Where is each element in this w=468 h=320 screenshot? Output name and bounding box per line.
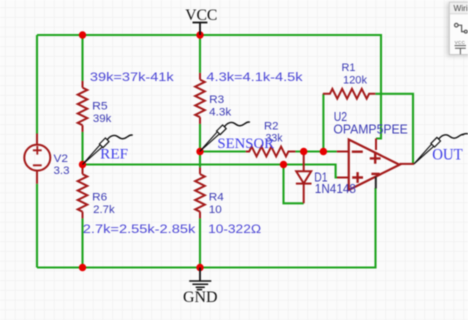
svg-text:10-322Ω: 10-322Ω [208, 222, 261, 236]
svg-text:R5: R5 [92, 101, 108, 113]
svg-text:120k: 120k [343, 75, 368, 87]
svg-text:2.7k: 2.7k [93, 204, 115, 216]
svg-text:33k: 33k [266, 133, 284, 145]
svg-text:1N4148: 1N4148 [315, 182, 356, 196]
svg-text:R6: R6 [92, 192, 107, 204]
svg-text:R1: R1 [342, 62, 356, 74]
svg-text:10: 10 [209, 204, 222, 216]
svg-text:OUT: OUT [432, 147, 463, 164]
svg-text:4.3k=4.1k-4.5k: 4.3k=4.1k-4.5k [206, 70, 303, 84]
svg-text:OPAMP5PEE: OPAMP5PEE [333, 123, 407, 137]
svg-text:3.3: 3.3 [54, 165, 70, 177]
svg-text:V2: V2 [54, 153, 69, 165]
svg-text:R4: R4 [209, 192, 224, 204]
svg-text:REF: REF [100, 147, 128, 163]
svg-text:2.7k=2.55k-2.85k: 2.7k=2.55k-2.85k [83, 222, 196, 236]
svg-text:VCC: VCC [455, 40, 466, 45]
svg-text:39k=37k-41k: 39k=37k-41k [90, 70, 175, 84]
svg-text:4.3k: 4.3k [209, 106, 232, 118]
svg-text:VCC: VCC [185, 7, 217, 24]
svg-text:39k: 39k [93, 113, 112, 125]
svg-text:R2: R2 [264, 121, 279, 133]
svg-text:R3: R3 [209, 94, 224, 106]
svg-text:GND: GND [183, 289, 218, 306]
svg-text:Wiring: Wiring [454, 3, 468, 13]
